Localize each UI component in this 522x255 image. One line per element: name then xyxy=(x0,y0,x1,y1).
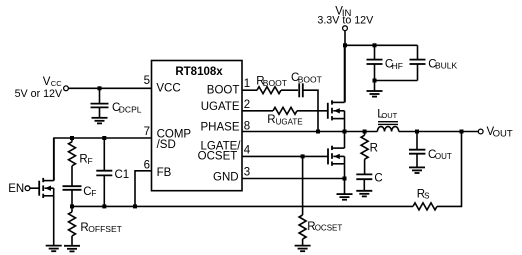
capacitor CDCPL xyxy=(99,88,101,103)
svg-text:UGATE: UGATE xyxy=(201,101,240,113)
svg-text:DCPL: DCPL xyxy=(119,104,142,114)
capacitor CBOOT xyxy=(298,83,300,97)
junction Q1/PHASE xyxy=(343,130,347,134)
svg-text:OUT: OUT xyxy=(435,152,452,161)
junction VCC/CDCPL xyxy=(98,86,102,90)
svg-text:EN: EN xyxy=(8,183,24,195)
svg-text:R: R xyxy=(267,114,275,126)
junction FB/C1 xyxy=(102,204,106,208)
svg-text:C: C xyxy=(374,173,382,185)
ground ROCSET xyxy=(295,246,311,252)
wire EN drain up to COMP line xyxy=(53,138,55,181)
ground EN source xyxy=(46,246,62,252)
junction FB corner xyxy=(133,204,137,208)
svg-text:6: 6 xyxy=(144,160,150,172)
svg-text:3.3V to 12V: 3.3V to 12V xyxy=(317,15,374,27)
wire VIN down to Q1 drain xyxy=(344,31,346,103)
svg-text:2: 2 xyxy=(244,99,250,111)
svg-text:3: 3 xyxy=(244,167,250,179)
resistor ROCSET xyxy=(302,156,304,215)
IC U1 RT8108x box xyxy=(152,61,243,191)
svg-text:C1: C1 xyxy=(115,169,130,181)
resistor RUGATE xyxy=(273,107,297,114)
inductor LOUT xyxy=(377,127,398,132)
ground CDCPL xyxy=(92,118,108,124)
junction RS/VOUT xyxy=(460,130,464,134)
junction BOOT/PHASE xyxy=(316,130,320,134)
resistor RS xyxy=(413,203,437,210)
junction Q2 source/GND xyxy=(343,177,347,181)
resistor RF xyxy=(71,138,73,142)
wire VCC to pin5 xyxy=(68,87,151,89)
svg-text:RT8108x: RT8108x xyxy=(175,66,223,78)
junction FB/RFCF xyxy=(70,204,74,208)
snubber capacitor C xyxy=(356,173,372,175)
transistor Q1 high side MOSFET xyxy=(327,103,329,119)
wire EN source down xyxy=(53,196,55,246)
junction C1 top xyxy=(102,136,106,140)
wire Q2 drain to phase xyxy=(344,132,346,149)
junction ROCSET xyxy=(301,154,305,158)
svg-text:5: 5 xyxy=(144,75,150,87)
resistor ROFFSET xyxy=(71,206,73,212)
capacitor CHF xyxy=(374,45,376,59)
snubber R xyxy=(363,130,367,134)
svg-text:R: R xyxy=(79,154,87,166)
wire Q2 source down xyxy=(344,164,346,179)
svg-text:OUT: OUT xyxy=(381,111,397,120)
svg-text:OFFSET: OFFSET xyxy=(88,224,122,234)
svg-text:OCSET: OCSET xyxy=(198,150,238,162)
svg-text:5V or 12V: 5V or 12V xyxy=(15,88,63,100)
wire PHASE pin8 xyxy=(242,131,377,133)
svg-text:BOOT: BOOT xyxy=(298,75,322,85)
VCC input terminal xyxy=(64,86,69,91)
svg-text:CC: CC xyxy=(51,79,62,88)
svg-text:BULK: BULK xyxy=(435,61,458,71)
capacitor C1 xyxy=(103,138,105,171)
svg-text:UGATE: UGATE xyxy=(276,118,303,127)
svg-text:7: 7 xyxy=(144,126,150,138)
svg-text:OCSET: OCSET xyxy=(315,224,343,233)
svg-text:VCC: VCC xyxy=(156,82,180,94)
wire caps bottom rail xyxy=(375,80,418,82)
svg-text:PHASE: PHASE xyxy=(201,121,240,133)
junction VIN rail xyxy=(343,43,347,47)
wire FB long line xyxy=(72,205,413,207)
wire Q1 source to phase xyxy=(344,119,346,132)
svg-text:BOOT: BOOT xyxy=(263,78,287,88)
wire BOOT pin1 xyxy=(242,89,257,91)
wire PHASE to VOUT xyxy=(399,131,479,133)
ground Q2 xyxy=(344,179,346,195)
wire VIN rail to caps xyxy=(345,44,418,46)
junction CHF top xyxy=(373,43,377,47)
ground snubber xyxy=(356,191,372,197)
svg-text:V: V xyxy=(43,76,51,88)
junction CHF bottom xyxy=(373,79,377,83)
capacitor COUT xyxy=(415,130,419,134)
wire CBOOT to phase xyxy=(303,90,318,131)
svg-text:/SD: /SD xyxy=(157,139,176,151)
capacitor CBULK xyxy=(417,45,419,59)
wire FB pin6 xyxy=(135,171,152,207)
ground COUT xyxy=(409,167,425,173)
VOUT terminal xyxy=(478,129,483,134)
svg-text:GND: GND xyxy=(213,172,239,184)
wire LGATE/OCSET pin4 xyxy=(242,155,328,157)
resistor RBOOT xyxy=(257,87,281,94)
wire RS to VOUT xyxy=(437,132,462,207)
wire UGATE pin2 xyxy=(242,110,273,112)
capacitor CF xyxy=(63,185,82,187)
ground input caps xyxy=(374,81,376,91)
svg-text:1: 1 xyxy=(244,78,250,90)
wire COMP/SD pin7 xyxy=(54,138,152,181)
svg-text:8: 8 xyxy=(244,120,250,132)
svg-text:FB: FB xyxy=(157,167,172,179)
junction RF top xyxy=(70,136,74,140)
svg-text:HF: HF xyxy=(392,61,403,71)
svg-text:OUT: OUT xyxy=(493,128,513,139)
svg-text:4: 4 xyxy=(244,145,251,157)
svg-text:F: F xyxy=(88,156,93,166)
ground ROFFSET xyxy=(64,246,80,252)
svg-text:BOOT: BOOT xyxy=(207,85,240,97)
wire Q1 drain xyxy=(344,45,346,102)
wire GND pin3 xyxy=(242,178,345,180)
transistor Q2 low side MOSFET xyxy=(327,148,329,164)
svg-text:R: R xyxy=(370,143,378,155)
svg-text:S: S xyxy=(424,192,429,201)
svg-text:F: F xyxy=(91,188,96,198)
